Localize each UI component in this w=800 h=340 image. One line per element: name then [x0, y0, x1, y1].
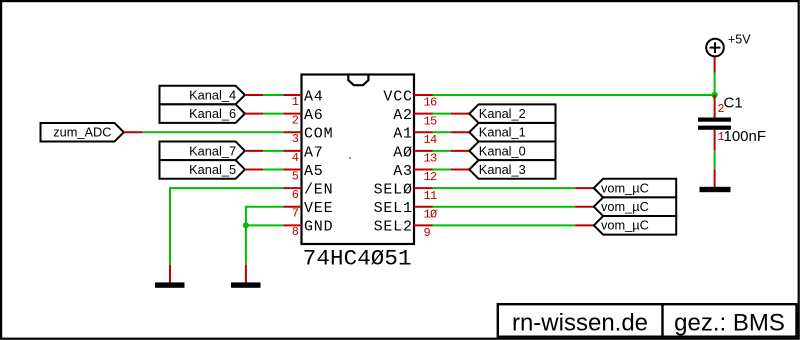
- IC U1 pin 10 stub (SEL1): [414, 206, 433, 208]
- wire red segment from Kanal_4 flag: [245, 94, 263, 96]
- IC U1 pin 14 stub (A1): [414, 131, 433, 133]
- wire green segment pin 14: [433, 131, 451, 133]
- capacitor C1 pin 2 stub: [714, 95, 716, 118]
- svg-text:A1: A1: [393, 126, 413, 143]
- capacitor C1 pin 1 stub: [714, 130, 716, 151]
- wire green segment pin 9 SEL2: [433, 224, 576, 226]
- svg-text:3: 3: [292, 132, 299, 146]
- svg-text:5: 5: [292, 169, 299, 183]
- svg-text:Kanal_5: Kanal_5: [189, 162, 236, 177]
- IC U1 74HC4051 body outline: [302, 75, 415, 245]
- svg-text:VEE: VEE: [304, 200, 333, 217]
- wire red segment from Kanal_5 flag: [245, 168, 263, 170]
- svg-text:11: 11: [424, 189, 438, 203]
- title block frame: [498, 304, 797, 337]
- svg-text:zum_ADC: zum_ADC: [53, 125, 111, 140]
- svg-text:A2: A2: [393, 107, 413, 124]
- svg-text:1Ø: 1Ø: [424, 207, 438, 221]
- wire green VEE horizontal: [246, 206, 284, 208]
- IC U1 pin 16 stub (VCC): [414, 94, 433, 96]
- svg-text:COM: COM: [304, 126, 333, 143]
- title block divider: [661, 304, 663, 337]
- wire green +5V down to junction: [714, 73, 716, 96]
- wire red segment from zum_ADC flag: [124, 131, 142, 133]
- svg-text:A5: A5: [304, 163, 324, 180]
- capacitor C1 bottom plate: [698, 126, 731, 130]
- IC U1 pin 12 stub (A3): [414, 168, 433, 170]
- svg-text:7: 7: [292, 207, 299, 221]
- svg-text:13: 13: [424, 152, 438, 166]
- wire green segment pin 10 SEL1: [433, 206, 576, 208]
- IC U1 pin 9 stub (SEL2): [414, 224, 433, 226]
- svg-text:74HC4Ø51: 74HC4Ø51: [303, 245, 412, 271]
- svg-text:A4: A4: [304, 88, 324, 105]
- wire green segment to pin: [263, 150, 283, 152]
- svg-text:rn-wissen.de: rn-wissen.de: [512, 310, 648, 337]
- ground GND2 symbol bar: [231, 282, 261, 287]
- svg-text:SELØ: SELØ: [374, 182, 413, 199]
- svg-text:VCC: VCC: [383, 88, 412, 105]
- svg-text:16: 16: [424, 96, 438, 110]
- IC U1 pin 2 stub (A6): [284, 113, 302, 115]
- wire red segment to vom_uC flag: [575, 187, 594, 189]
- wire green segment pin 12: [433, 168, 451, 170]
- wire green segment pin 11 SEL0: [433, 187, 576, 189]
- wire red segment to Kanal_0 flag: [451, 150, 470, 152]
- node Kanal_4: label flag: [160, 86, 245, 105]
- svg-text:9: 9: [424, 226, 431, 240]
- svg-text:Kanal_6: Kanal_6: [189, 106, 236, 121]
- svg-text:8: 8: [292, 225, 299, 239]
- ground GND1 pin stub: [169, 265, 171, 283]
- svg-text:A7: A7: [304, 144, 324, 161]
- svg-text:Kanal_1: Kanal_1: [479, 125, 526, 140]
- svg-text:Kanal_2: Kanal_2: [479, 106, 526, 121]
- junction dot on VCC net: [712, 92, 718, 98]
- IC U1 top notch: [348, 76, 368, 86]
- svg-text:100nF: 100nF: [724, 128, 767, 145]
- wire green segment to pin: [263, 113, 283, 115]
- +5V symbol pin stub: [714, 57, 716, 73]
- svg-text:A6: A6: [304, 107, 324, 124]
- wire red segment from Kanal_7 flag: [245, 150, 263, 152]
- svg-text:SEL2: SEL2: [374, 219, 413, 236]
- IC U1 pin 3 stub (COM): [284, 131, 302, 133]
- wire green vertical VEE/GND drop: [245, 206, 247, 265]
- IC U1 pin 5 stub (A5): [284, 168, 302, 170]
- IC U1 pin 11 stub (SELØ): [414, 187, 433, 189]
- svg-text:2: 2: [292, 114, 299, 128]
- wire green segment COM net: [142, 131, 284, 133]
- IC U1 pin 8 stub (GND): [284, 224, 302, 226]
- wire red segment to Kanal_2 flag: [451, 113, 470, 115]
- wire green GND horizontal: [246, 224, 284, 226]
- svg-text:A3: A3: [393, 163, 413, 180]
- junction dot on GND net: [243, 222, 249, 228]
- svg-text:Kanal_4: Kanal_4: [189, 88, 236, 103]
- wire red segment to vom_uC flag: [575, 224, 594, 226]
- node Kanal_0: label flag: [469, 142, 555, 161]
- wire red segment to Kanal_3 flag: [451, 168, 470, 170]
- svg-text:vom_µC: vom_µC: [601, 199, 649, 214]
- node vom_uC (2): label flag: [594, 197, 676, 216]
- svg-text:Kanal_7: Kanal_7: [189, 143, 236, 158]
- wire green /EN horizontal: [170, 187, 284, 189]
- node vom_uC (3): label flag: [594, 216, 676, 235]
- ground GND3 symbol bar: [700, 187, 731, 192]
- node Kanal_2: label flag: [469, 104, 555, 123]
- IC U1 pin 15 stub (A2): [414, 113, 433, 115]
- svg-text:4: 4: [292, 151, 299, 165]
- node Kanal_5: label flag: [160, 160, 245, 179]
- IC U1 pin 13 stub (AØ): [414, 150, 433, 152]
- IC U1 pin 1 stub (A4): [284, 94, 302, 96]
- wire green C1 to ground: [714, 151, 716, 170]
- node Kanal_7: label flag: [160, 142, 245, 161]
- svg-text:15: 15: [424, 114, 438, 128]
- svg-text:6: 6: [292, 188, 299, 202]
- wire red segment to Kanal_1 flag: [451, 131, 470, 133]
- svg-text:+5V: +5V: [728, 33, 751, 47]
- svg-text:AØ: AØ: [393, 144, 413, 161]
- IC U1 pin 4 stub (A7): [284, 150, 302, 152]
- svg-text:1: 1: [292, 95, 299, 109]
- svg-text:/EN: /EN: [304, 182, 333, 199]
- node Kanal_3: label flag: [469, 160, 555, 179]
- svg-text:Kanal_0: Kanal_0: [479, 143, 526, 158]
- node zum_ADC: label flag: [41, 123, 124, 142]
- IC U1 origin mark: [349, 157, 351, 159]
- node Kanal_1: label flag: [469, 123, 555, 142]
- wire red segment to vom_uC flag: [575, 206, 594, 208]
- ground GND2 pin stub: [245, 265, 247, 283]
- svg-text:vom_µC: vom_µC: [601, 180, 649, 195]
- svg-text:GND: GND: [304, 219, 333, 236]
- svg-text:SEL1: SEL1: [374, 200, 413, 217]
- ground GND3 pin stub: [714, 169, 716, 187]
- node Kanal_6: label flag: [160, 104, 245, 123]
- wire green segment to pin: [263, 168, 283, 170]
- svg-text:vom_µC: vom_µC: [601, 218, 649, 233]
- wire green VCC horizontal to +5V rail: [433, 94, 715, 96]
- svg-text:gez.: BMS: gez.: BMS: [674, 310, 785, 337]
- wire green /EN vertical drop: [169, 187, 171, 265]
- IC U1 pin 6 stub (/EN): [284, 187, 302, 189]
- node vom_uC (1): label flag: [594, 179, 676, 198]
- wire green segment pin 15: [433, 113, 451, 115]
- svg-text:Kanal_3: Kanal_3: [479, 162, 526, 177]
- wire green segment to pin: [263, 94, 283, 96]
- capacitor C1 top plate: [698, 118, 731, 122]
- wire green segment pin 13: [433, 150, 451, 152]
- IC U1 pin 7 stub (VEE): [284, 206, 302, 208]
- svg-text:14: 14: [424, 133, 438, 147]
- wire red segment from Kanal_6 flag: [245, 113, 263, 115]
- svg-text:12: 12: [424, 170, 438, 184]
- power symbol +5V circle: [706, 39, 724, 57]
- svg-text:C1: C1: [724, 95, 743, 112]
- ground GND1 symbol bar: [155, 282, 185, 287]
